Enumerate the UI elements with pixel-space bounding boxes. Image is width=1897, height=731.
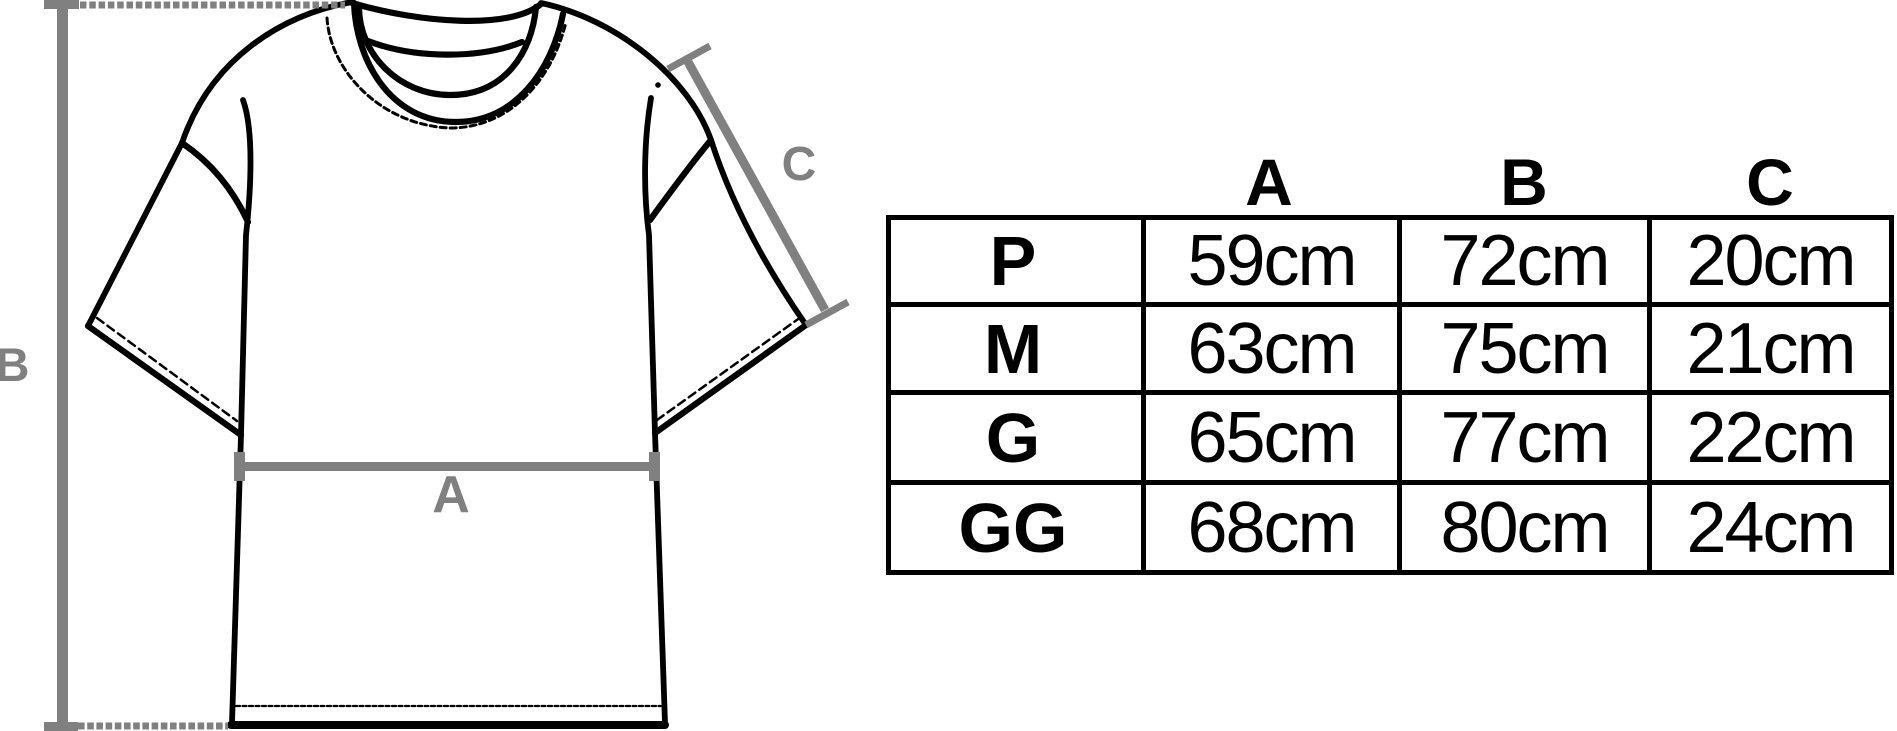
bottom hem — [231, 721, 665, 729]
right cuff stitch — [657, 317, 801, 420]
collar band inner edge — [359, 7, 536, 95]
row G column C value — [1652, 395, 1889, 480]
row P size label cell — [891, 220, 1135, 302]
row GG size label cell — [891, 485, 1135, 570]
left shoulder outline — [182, 2, 352, 143]
measure B vertical bar — [57, 0, 68, 731]
row M column C value — [1652, 307, 1889, 390]
left sleeve seam — [182, 143, 248, 222]
right sleeve seam — [650, 140, 711, 220]
left cuff stitch — [97, 318, 237, 421]
collar stitch dotted — [327, 18, 566, 128]
measure A left cap — [234, 452, 245, 481]
measure B top cap — [44, 0, 79, 9]
svg-text:C: C — [782, 138, 817, 191]
left sleeve cuff — [88, 326, 241, 435]
row M column B value — [1402, 307, 1647, 390]
measure C top cap — [668, 46, 710, 69]
measure A bar — [240, 462, 655, 471]
collar band outer edge — [354, 3, 563, 122]
right sleeve outer edge — [711, 140, 806, 325]
table row divider 3 — [886, 480, 1894, 485]
left sleeve outer edge — [88, 143, 182, 326]
size table — [0, 0, 1897, 1]
row GG column B value — [1402, 485, 1647, 570]
column header A — [1119, 144, 1419, 220]
column header C — [1620, 144, 1897, 220]
table top border — [886, 215, 1894, 220]
table bottom border — [886, 570, 1894, 575]
measure C bottom cap — [806, 302, 848, 325]
row P column B value — [1402, 220, 1647, 302]
svg-text:A: A — [432, 466, 470, 524]
table row divider 1 — [886, 302, 1894, 307]
row P column C value — [1652, 220, 1889, 302]
bottom hem stitch — [236, 705, 661, 707]
row P column A value — [1146, 220, 1397, 302]
right shoulder outline — [541, 3, 711, 140]
right shoulder dot — [655, 82, 661, 88]
measure C line — [687, 60, 825, 310]
table column divider 3 — [1647, 215, 1652, 575]
collar back top edge — [352, 3, 541, 21]
collar back bottom edge — [368, 41, 522, 55]
row G column A value — [1146, 395, 1397, 480]
svg-text:B: B — [0, 338, 29, 391]
right sleeve cuff — [655, 325, 806, 433]
right armhole crease and body seam — [645, 98, 665, 723]
table left border — [886, 215, 891, 575]
table column divider 2 — [1397, 215, 1402, 575]
row G column B value — [1402, 395, 1647, 480]
row GG column A value — [1146, 485, 1397, 570]
row M size label cell — [891, 307, 1135, 390]
row GG column C value — [1652, 485, 1889, 570]
left armhole crease and body seam — [232, 100, 251, 723]
bottom dashed line — [78, 723, 228, 730]
top dashed line — [80, 2, 345, 9]
row G size label cell — [891, 395, 1135, 480]
table row divider 2 — [886, 390, 1894, 395]
column header B — [1374, 144, 1674, 220]
table right border — [1889, 215, 1894, 575]
measure A right cap — [649, 452, 660, 481]
measure B bottom cap — [44, 722, 78, 731]
row M column A value — [1146, 307, 1397, 390]
table column divider 1 — [1141, 215, 1146, 575]
